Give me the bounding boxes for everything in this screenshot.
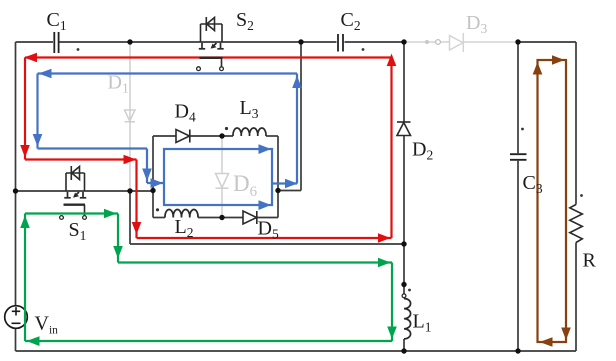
inductor L2 (165, 210, 198, 218)
green loop left vertical (24, 214, 26, 342)
capacitor C2 (338, 34, 343, 52)
green loop bottom horizontal (25, 340, 392, 342)
red arrow right bottom (378, 233, 391, 243)
switch S2 source terminal circle (197, 67, 201, 71)
node S1 left (13, 188, 18, 193)
blue arrow down entry (142, 169, 152, 182)
switch S1 channel arrowhead (73, 193, 79, 198)
wire D3 out to top right corner (516, 41, 576, 43)
node D6 top (219, 133, 224, 138)
wire C1 to C2 (60, 41, 337, 43)
green loop middle vertical (117, 214, 119, 263)
svg-text:R: R (583, 250, 597, 272)
red loop top segment (25, 56, 392, 58)
node L1 bottom (401, 348, 406, 353)
wire bottom (16, 350, 577, 352)
switch S1 channel marks (64, 192, 86, 198)
wire D2 node to L1 (403, 244, 405, 294)
red arrow down left (20, 145, 30, 158)
blue arrow right exit (285, 179, 298, 189)
diode D3 (greyed) symbol (450, 33, 464, 52)
green arrow up left (20, 216, 30, 229)
wire L2 to D5 (198, 217, 243, 219)
blue loop right vertical (296, 74, 298, 184)
node L1 wire (401, 241, 406, 246)
blue loop entry horizontal (38, 147, 148, 149)
wire S1 row (16, 190, 154, 192)
red loop right vertical (390, 58, 392, 239)
node C3 top (515, 39, 520, 44)
green loop right vertical (391, 263, 393, 342)
switch S1 gate drop (84, 205, 86, 216)
red arrow down middle (132, 222, 142, 235)
green input loop (25, 214, 392, 342)
blue commutation loop (38, 74, 298, 206)
brown arrow up left (533, 62, 543, 75)
wire D4 to L3 (190, 135, 233, 137)
wire left edge below Vin (15, 329, 17, 352)
switch S1 gate terminal circle (83, 216, 87, 220)
wire S1 node down (129, 191, 131, 244)
polarity markers (77, 48, 583, 291)
diode D5 (243, 211, 257, 224)
wire C3 branch upper (517, 42, 519, 153)
blue inner rectangle (164, 149, 272, 205)
red loop middle vertical (135, 160, 137, 239)
red commutation loop (25, 58, 392, 239)
wire box top to D4 (153, 135, 176, 137)
blue loop top segment (38, 72, 298, 74)
wire C3 branch lower (517, 161, 519, 351)
switch S1 gate bar (64, 204, 86, 206)
inductor L1 terminal circle (402, 294, 406, 298)
blue loop left vertical (36, 74, 38, 149)
diode D1 (greyed) branch wire (129, 42, 131, 191)
blue loop exit from box (272, 182, 297, 184)
wire box right edge (277, 136, 279, 218)
capacitor C1 (54, 32, 58, 53)
wire D5 to box corner (257, 217, 278, 219)
brown arrow left bottom (540, 337, 553, 347)
blue arrow left top (39, 69, 52, 79)
green loop top horizontal (25, 212, 118, 214)
wire box left edge (152, 136, 154, 218)
red arrow up right (387, 54, 397, 67)
switch S2 gate terminal circle (220, 67, 224, 71)
node box right (275, 188, 280, 193)
blue arrow up right (292, 76, 302, 89)
blue arrow right entry (151, 178, 164, 188)
brown load loop (538, 60, 567, 342)
switch S2 channel marks (199, 43, 224, 49)
node D1 bottom (127, 188, 132, 193)
red loop middle horizontal (25, 158, 137, 160)
node L1 top (401, 282, 406, 287)
wire L3 to box corner (266, 135, 278, 137)
switch S1 mosfet body (66, 166, 85, 191)
brown arrow right top (552, 55, 565, 65)
switch S1 source terminal circle (60, 216, 64, 220)
green arrow down right (387, 327, 397, 340)
switch S2 channel arrowhead (211, 44, 217, 49)
diode D3 (greyed) branch wire (406, 41, 516, 43)
wire L1 to bottom (403, 339, 405, 351)
wire D2 branch middle (403, 136, 405, 245)
D3 grey terminal circle (436, 40, 441, 45)
diode D2 (397, 122, 411, 136)
blue loop entry vertical (146, 149, 148, 184)
blue arrow down left (33, 134, 43, 147)
wire left edge (15, 42, 17, 306)
node D6 bottom (219, 215, 224, 220)
node D1 top (127, 39, 132, 44)
D3 grey terminal dot (425, 40, 429, 44)
node box left (150, 188, 155, 193)
green arrow right top (104, 209, 117, 219)
diode D6 (greyed) branch wire (221, 136, 223, 218)
wire right edge lower (575, 243, 577, 352)
blue arrow right rect top (259, 144, 272, 154)
green loop middle horizontal (118, 261, 392, 263)
capacitor C3 (510, 154, 527, 160)
switch S2 gate bar (200, 57, 223, 59)
wire box bottom to L2 (153, 217, 165, 219)
brown arrow down right (561, 328, 571, 341)
wire right edge upper (575, 42, 577, 205)
diode D1 (greyed) symbol (125, 110, 136, 122)
voltage source Vin (5, 306, 28, 329)
wire box output up to top (300, 42, 302, 191)
green arrow down middle (113, 246, 123, 259)
red loop bottom horizontal (137, 237, 392, 239)
blue arrow right rect bottom (259, 200, 272, 210)
node C3 bottom (515, 348, 520, 353)
blue loop entry into box (147, 182, 164, 184)
red loop left vertical (24, 58, 26, 160)
inductor L1 (404, 299, 411, 339)
wire box output right (278, 190, 301, 192)
wire across to L1 (130, 243, 404, 245)
red arrow left top (24, 53, 37, 63)
node box output top (298, 39, 303, 44)
switch S2 gate drop (221, 58, 223, 67)
switch S2 mosfet body (201, 17, 223, 42)
wire C2 to node after C2 (345, 41, 407, 43)
inductor L3 (233, 128, 266, 136)
wire top left to C1 (16, 41, 54, 43)
diode D4 (176, 130, 190, 143)
node D2 top (401, 39, 406, 44)
resistor R (570, 205, 583, 243)
diode D6 (greyed) symbol (216, 174, 229, 189)
green arrow left bottom (27, 336, 40, 346)
red arrow right middle (124, 155, 137, 165)
green arrow right middle (378, 258, 391, 268)
wire D2 branch upper (403, 42, 405, 122)
